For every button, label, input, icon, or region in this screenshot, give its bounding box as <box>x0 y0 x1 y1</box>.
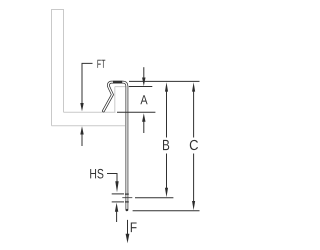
arrowheads <box>80 78 195 244</box>
B dimension line lower <box>166 154 168 191</box>
A top reference line <box>129 86 152 88</box>
HS witness tick top <box>112 193 124 195</box>
clip top tab <box>113 81 122 84</box>
FT leader <box>82 63 93 104</box>
A down arrow shaft <box>143 67 145 79</box>
A bottom reference line <box>117 111 155 113</box>
B bottom reference line <box>135 197 173 199</box>
label HS <box>90 169 103 179</box>
C up arrowhead <box>192 82 195 91</box>
deck top surface line (gray) <box>115 86 132 88</box>
label C <box>190 140 198 150</box>
B up arrowhead <box>165 82 168 91</box>
label FT <box>97 60 105 68</box>
B dimension line upper <box>166 89 168 137</box>
hole centerline <box>122 197 132 199</box>
label F <box>131 223 137 233</box>
C dimension line upper <box>193 89 195 137</box>
HS witness tick bottom <box>112 201 124 203</box>
FT up arrow shaft <box>81 133 83 146</box>
top reference line (B/C) <box>129 80 200 82</box>
A up arrow shaft <box>143 121 145 134</box>
FT up arrowhead <box>80 126 83 134</box>
dimension lines <box>82 63 200 235</box>
clip body (spring steel clip, double-line) <box>103 82 127 210</box>
C bottom reference line <box>133 210 200 212</box>
rod hole top edge <box>125 193 129 195</box>
HS leader <box>107 174 117 187</box>
C down arrowhead <box>192 201 195 210</box>
HS down arrowhead <box>115 181 118 192</box>
beam web (gray structure) <box>52 10 64 126</box>
deck rib wall (gray) <box>114 87 116 113</box>
B down arrowhead <box>165 188 168 197</box>
rod hole bottom edge <box>125 201 129 203</box>
flange top line <box>64 111 116 113</box>
A down arrowhead <box>142 78 145 87</box>
FT down arrowhead <box>80 103 83 111</box>
label B <box>163 140 169 150</box>
HS up arrow shaft <box>116 209 118 222</box>
F arrow shaft <box>127 220 129 235</box>
A up arrowhead <box>142 113 145 122</box>
F down arrowhead <box>126 234 130 243</box>
flange bottom line <box>52 125 126 127</box>
HS up arrowhead <box>115 203 118 212</box>
label A <box>140 95 147 104</box>
C dimension line lower <box>193 154 195 204</box>
